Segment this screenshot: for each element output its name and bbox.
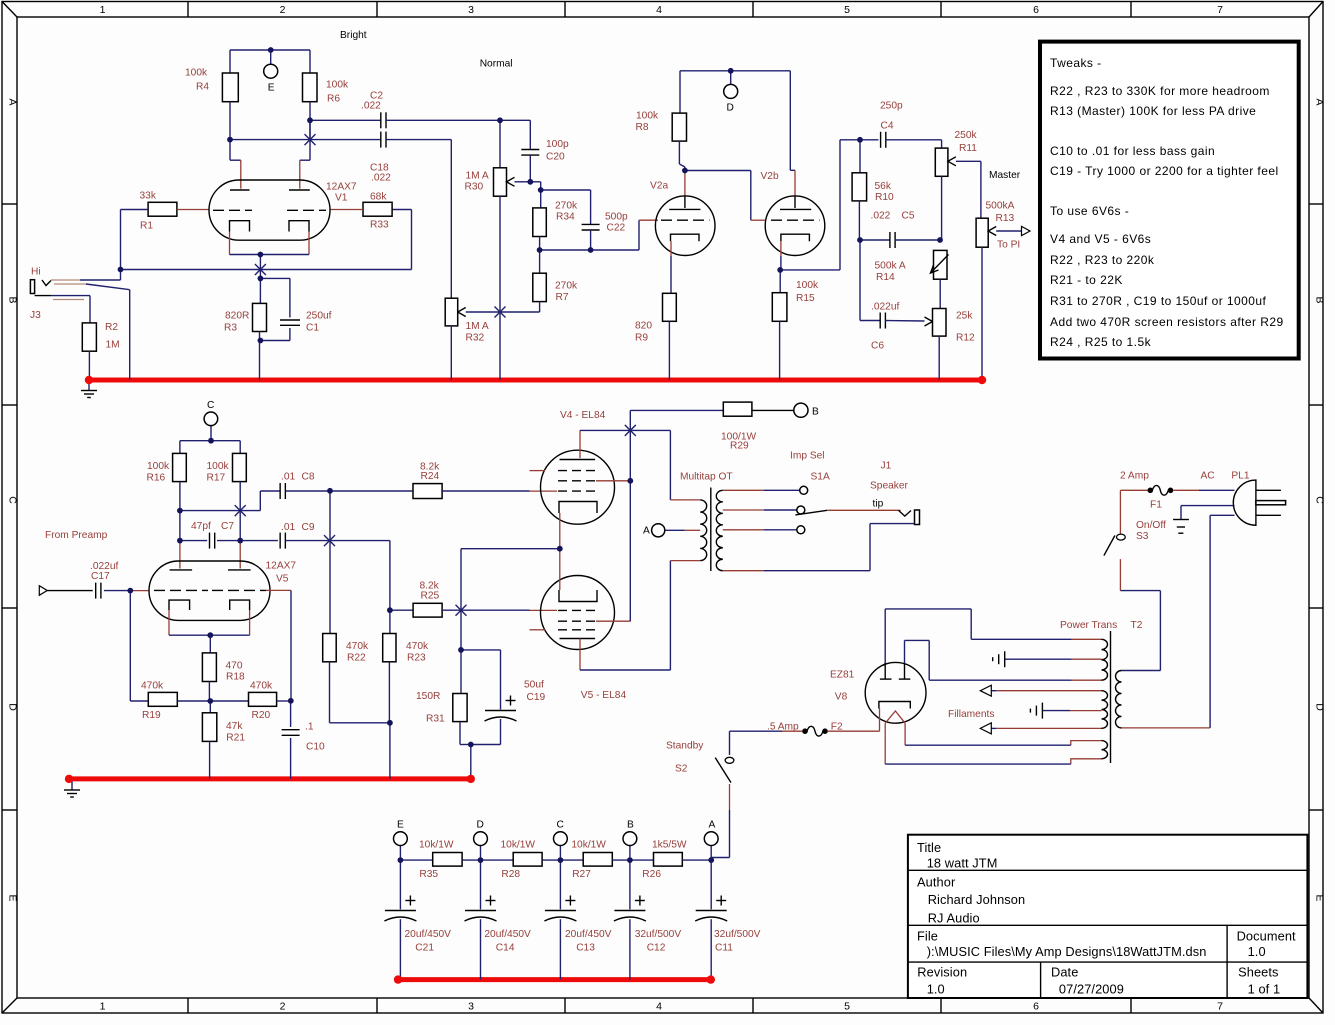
- svg-text:R1: R1: [140, 220, 153, 231]
- svg-text:V4 and V5 - 6V6s: V4 and V5 - 6V6s: [1050, 232, 1151, 246]
- svg-text:Add two 470R screen resistors: Add two 470R screen resistors after R29: [1050, 315, 1284, 329]
- svg-text:32uf/500V: 32uf/500V: [635, 929, 682, 940]
- svg-text:R13 (Master) 100K for less PA: R13 (Master) 100K for less PA drive: [1050, 104, 1256, 118]
- svg-text:R22 , R23 to 220k: R22 , R23 to 220k: [1050, 253, 1155, 267]
- svg-text:PL1: PL1: [1231, 470, 1249, 481]
- svg-text:D: D: [1314, 703, 1326, 711]
- svg-text:.01: .01: [281, 522, 295, 533]
- svg-text:J3: J3: [30, 310, 41, 321]
- svg-text:R32: R32: [466, 332, 485, 343]
- svg-text:Tweaks -: Tweaks -: [1050, 56, 1102, 70]
- svg-text:R12: R12: [956, 333, 975, 344]
- svg-text:18 watt JTM: 18 watt JTM: [927, 856, 998, 871]
- svg-text:F1: F1: [1150, 499, 1162, 510]
- svg-text:1.0: 1.0: [1248, 944, 1266, 959]
- svg-text:R31: R31: [426, 713, 445, 724]
- svg-text:V5: V5: [276, 573, 289, 584]
- svg-text:R2: R2: [105, 322, 118, 333]
- svg-text:C13: C13: [576, 942, 595, 953]
- svg-text:6: 6: [1033, 4, 1039, 16]
- svg-text:500p: 500p: [605, 211, 628, 222]
- svg-text:V5 - EL84: V5 - EL84: [581, 690, 627, 701]
- svg-text:1M A: 1M A: [466, 321, 489, 332]
- svg-text:100k: 100k: [796, 280, 819, 291]
- svg-text:C14: C14: [496, 942, 515, 953]
- svg-text:EZ81: EZ81: [830, 669, 855, 680]
- svg-text:D: D: [727, 102, 734, 113]
- svg-text:B: B: [7, 296, 19, 303]
- svg-text:R9: R9: [635, 332, 648, 343]
- svg-text:R21: R21: [226, 732, 245, 743]
- svg-text:R17: R17: [207, 472, 226, 483]
- svg-text:R6: R6: [327, 93, 340, 104]
- svg-text:C7: C7: [221, 521, 234, 532]
- svg-text:500k A: 500k A: [875, 260, 906, 271]
- svg-text:A: A: [1314, 98, 1326, 105]
- svg-text:R19: R19: [142, 710, 161, 721]
- svg-text:V2a: V2a: [650, 180, 668, 191]
- svg-text:Master: Master: [989, 170, 1021, 181]
- svg-text:D: D: [477, 819, 484, 830]
- svg-text:B: B: [1314, 296, 1326, 303]
- svg-text:AC: AC: [1201, 470, 1215, 481]
- svg-text:C: C: [7, 496, 19, 504]
- svg-text:R31 to 270R , C19 to 150uf or: R31 to 270R , C19 to 150uf or 1000uf: [1050, 294, 1267, 308]
- svg-text:C10 to .01 for less bass gain: C10 to .01 for less bass gain: [1050, 144, 1215, 158]
- svg-text:Imp Sel: Imp Sel: [790, 450, 825, 461]
- svg-text:6: 6: [1033, 1001, 1039, 1013]
- svg-text:Hi: Hi: [31, 266, 41, 277]
- svg-text:Bright: Bright: [340, 30, 367, 41]
- svg-text:5: 5: [844, 4, 850, 16]
- svg-text:V4 - EL84: V4 - EL84: [560, 410, 606, 421]
- svg-text:820R: 820R: [225, 310, 249, 321]
- svg-text:20uf/450V: 20uf/450V: [565, 929, 612, 940]
- svg-text:R24 , R25 to 1.5k: R24 , R25 to 1.5k: [1050, 335, 1152, 349]
- svg-text:.5 Amp: .5 Amp: [767, 721, 799, 732]
- svg-text:C20: C20: [546, 151, 565, 162]
- svg-text:1: 1: [100, 4, 106, 16]
- svg-text:R20: R20: [252, 710, 271, 721]
- svg-text:R25: R25: [421, 590, 440, 601]
- svg-text:B: B: [812, 406, 819, 417]
- svg-text:Multitap OT: Multitap OT: [680, 471, 733, 482]
- svg-text:V1: V1: [335, 192, 348, 203]
- svg-text:R10: R10: [875, 192, 894, 203]
- svg-text:):\MUSIC Files\My Amp Designs\: ):\MUSIC Files\My Amp Designs\18WattJTM.…: [927, 944, 1207, 959]
- svg-text:R27: R27: [572, 869, 591, 880]
- svg-text:Speaker: Speaker: [870, 480, 909, 491]
- svg-text:4: 4: [656, 4, 662, 16]
- svg-text:1M A: 1M A: [466, 170, 489, 181]
- svg-text:Revision: Revision: [917, 964, 967, 979]
- svg-text:R8: R8: [636, 122, 649, 133]
- svg-text:F2: F2: [831, 721, 843, 732]
- svg-text:07/27/2009: 07/27/2009: [1059, 981, 1124, 996]
- svg-text:C4: C4: [881, 120, 894, 131]
- svg-text:S3: S3: [1136, 531, 1149, 542]
- svg-text:100k: 100k: [636, 110, 659, 121]
- svg-text:R14: R14: [876, 272, 895, 283]
- svg-text:2: 2: [280, 1001, 286, 1013]
- svg-text:C1: C1: [306, 322, 319, 333]
- svg-text:100k: 100k: [185, 67, 208, 78]
- svg-text:.1: .1: [305, 721, 314, 732]
- svg-text:1k5/5W: 1k5/5W: [652, 839, 687, 850]
- svg-text:100p: 100p: [546, 139, 569, 150]
- svg-text:.022uf: .022uf: [871, 301, 899, 312]
- svg-text:C17: C17: [91, 571, 110, 582]
- svg-text:100k: 100k: [207, 461, 230, 472]
- svg-text:820: 820: [635, 320, 652, 331]
- svg-text:1M: 1M: [106, 339, 120, 350]
- svg-text:From Preamp: From Preamp: [45, 530, 108, 541]
- svg-text:Richard Johnson: Richard Johnson: [928, 892, 1026, 907]
- svg-text:R18: R18: [226, 672, 245, 683]
- svg-text:R16: R16: [147, 472, 166, 483]
- svg-text:2 Amp: 2 Amp: [1120, 470, 1149, 481]
- svg-text:Standby: Standby: [666, 740, 704, 751]
- svg-text:C: C: [1314, 496, 1326, 504]
- svg-text:To PI: To PI: [997, 239, 1020, 250]
- svg-text:R22: R22: [347, 652, 366, 663]
- svg-text:R22 , R23 to 330K for more hea: R22 , R23 to 330K for more headroom: [1050, 84, 1270, 98]
- svg-text:R33: R33: [370, 219, 389, 230]
- svg-text:R30: R30: [465, 181, 484, 192]
- svg-text:T2: T2: [1131, 620, 1143, 631]
- svg-text:R4: R4: [196, 81, 209, 92]
- svg-text:R7: R7: [556, 292, 569, 303]
- svg-text:1: 1: [100, 1001, 106, 1013]
- svg-text:RJ Audio: RJ Audio: [928, 911, 980, 926]
- svg-text:C8: C8: [302, 471, 315, 482]
- svg-text:On/Off: On/Off: [1136, 520, 1166, 531]
- svg-text:150R: 150R: [416, 691, 440, 702]
- svg-text:500kA: 500kA: [986, 200, 1015, 211]
- svg-text:R35: R35: [419, 869, 438, 880]
- svg-text:470: 470: [226, 660, 243, 671]
- svg-text:7: 7: [1217, 1001, 1223, 1013]
- svg-text:100k: 100k: [326, 79, 349, 90]
- svg-text:R24: R24: [421, 471, 440, 482]
- svg-text:250p: 250p: [880, 100, 903, 111]
- svg-text:25k: 25k: [956, 310, 973, 321]
- svg-text:E: E: [397, 819, 404, 830]
- svg-text:12AX7: 12AX7: [266, 560, 297, 571]
- svg-text:S1A: S1A: [811, 471, 830, 482]
- svg-text:20uf/450V: 20uf/450V: [405, 929, 452, 940]
- svg-text:R29: R29: [730, 440, 749, 451]
- svg-text:Fillaments: Fillaments: [948, 709, 994, 720]
- svg-text:C12: C12: [647, 942, 666, 953]
- svg-text:Date: Date: [1051, 964, 1078, 979]
- svg-text:C6: C6: [871, 340, 884, 351]
- svg-text:V2b: V2b: [761, 171, 779, 182]
- svg-text:2: 2: [280, 4, 286, 16]
- svg-text:100k: 100k: [147, 461, 170, 472]
- svg-text:Sheets: Sheets: [1238, 964, 1278, 979]
- svg-text:tip: tip: [873, 498, 884, 509]
- svg-text:.022: .022: [871, 210, 891, 221]
- svg-text:R34: R34: [556, 211, 575, 222]
- svg-text:R21 - to 22K: R21 - to 22K: [1050, 273, 1123, 287]
- svg-text:10k/1W: 10k/1W: [419, 839, 454, 850]
- svg-text:32uf/500V: 32uf/500V: [714, 929, 761, 940]
- svg-text:47pf: 47pf: [191, 521, 211, 532]
- svg-text:470k: 470k: [250, 681, 273, 692]
- svg-text:R28: R28: [501, 869, 520, 880]
- svg-text:Normal: Normal: [480, 58, 513, 69]
- svg-text:C10: C10: [306, 742, 325, 753]
- svg-text:47k: 47k: [226, 721, 243, 732]
- svg-text:Author: Author: [917, 875, 956, 890]
- svg-text:3: 3: [468, 1001, 474, 1013]
- svg-text:470k: 470k: [406, 641, 429, 652]
- svg-text:B: B: [627, 819, 634, 830]
- svg-text:470k: 470k: [141, 681, 164, 692]
- svg-text:C22: C22: [607, 222, 626, 233]
- svg-text:R3: R3: [224, 322, 237, 333]
- svg-text:33k: 33k: [140, 190, 157, 201]
- svg-text:E: E: [1314, 894, 1326, 901]
- svg-text:Document: Document: [1237, 928, 1296, 943]
- svg-text:R15: R15: [796, 293, 815, 304]
- svg-text:C11: C11: [715, 942, 733, 953]
- svg-text:.01: .01: [281, 471, 295, 482]
- svg-text:R26: R26: [642, 869, 661, 880]
- svg-text:68k: 68k: [370, 191, 387, 202]
- svg-text:20uf/450V: 20uf/450V: [484, 929, 531, 940]
- svg-text:V8: V8: [835, 691, 848, 702]
- svg-text:A: A: [7, 98, 19, 105]
- svg-text:C21: C21: [415, 942, 434, 953]
- svg-text:50uf: 50uf: [524, 679, 544, 690]
- svg-text:56k: 56k: [875, 181, 892, 192]
- svg-text:12AX7: 12AX7: [326, 181, 357, 192]
- svg-text:J1: J1: [881, 460, 892, 471]
- svg-text:10k/1W: 10k/1W: [501, 839, 536, 850]
- svg-text:C: C: [557, 819, 564, 830]
- svg-text:A: A: [709, 819, 716, 830]
- svg-text:470k: 470k: [346, 641, 369, 652]
- svg-text:250k: 250k: [955, 130, 978, 141]
- svg-text:270k: 270k: [555, 280, 578, 291]
- svg-text:Title: Title: [917, 840, 941, 855]
- svg-text:250uf: 250uf: [306, 310, 332, 321]
- svg-text:1 of 1: 1 of 1: [1248, 981, 1281, 996]
- svg-text:5: 5: [844, 1001, 850, 1013]
- svg-text:3: 3: [468, 4, 474, 16]
- svg-text:C5: C5: [902, 210, 915, 221]
- svg-text:.022: .022: [371, 172, 391, 183]
- svg-text:To use 6V6s -: To use 6V6s -: [1050, 204, 1129, 218]
- svg-text:R11: R11: [959, 143, 977, 154]
- svg-text:S2: S2: [675, 763, 688, 774]
- svg-text:.022: .022: [361, 100, 381, 111]
- svg-text:4: 4: [656, 1001, 662, 1013]
- svg-text:E: E: [7, 894, 19, 901]
- svg-text:File: File: [917, 928, 938, 943]
- svg-text:7: 7: [1217, 4, 1223, 16]
- svg-text:Power Trans: Power Trans: [1060, 620, 1117, 631]
- svg-text:270k: 270k: [555, 200, 578, 211]
- svg-text:1.0: 1.0: [927, 981, 945, 996]
- svg-text:D: D: [7, 703, 19, 711]
- svg-text:E: E: [268, 82, 275, 93]
- svg-text:10k/1W: 10k/1W: [571, 839, 606, 850]
- svg-text:R13: R13: [996, 213, 1015, 224]
- svg-text:A: A: [643, 525, 650, 536]
- svg-text:R23: R23: [407, 652, 426, 663]
- svg-text:C19: C19: [527, 692, 546, 703]
- svg-text:C9: C9: [302, 522, 315, 533]
- svg-text:C: C: [207, 400, 214, 411]
- svg-text:C19 - Try 1000 or 2200 for a t: C19 - Try 1000 or 2200 for a tighter fee…: [1050, 164, 1279, 178]
